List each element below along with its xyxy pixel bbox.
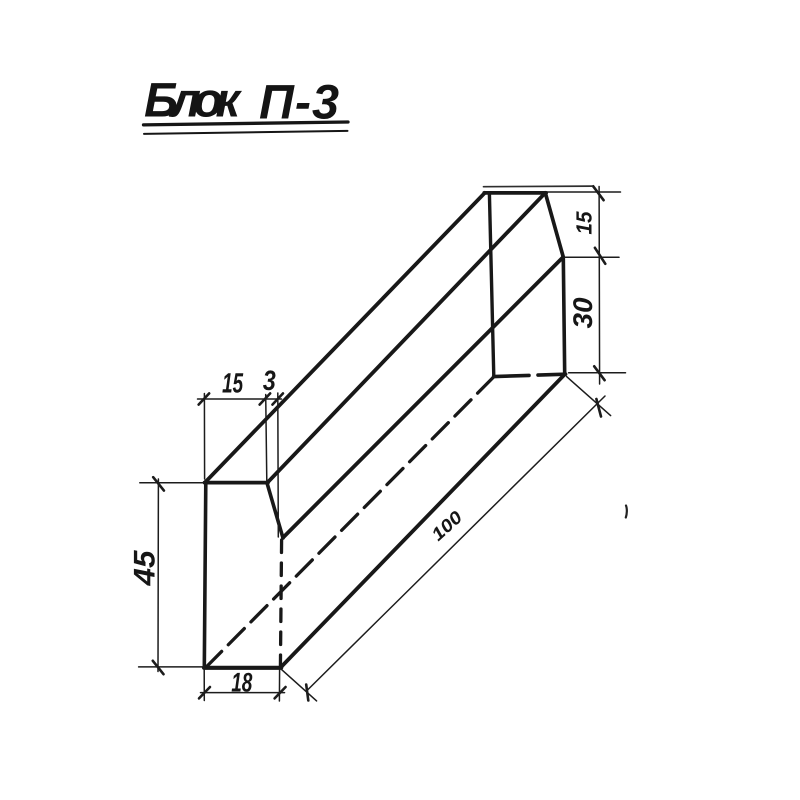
- dim line 45: [157, 479, 159, 672]
- ext line right of D' (30): [569, 372, 626, 374]
- small ink fleck: [626, 506, 627, 518]
- far right edge C'-D': [563, 257, 564, 374]
- far slant edge B'-C': [545, 193, 563, 257]
- tick 18 left: [199, 687, 210, 698]
- label 3 (top): [263, 370, 276, 390]
- tick right dim bottom: [594, 366, 604, 380]
- label 45 (left, rotated): [134, 550, 155, 586]
- dim line 15/3 (top): [198, 398, 282, 400]
- label 18 (bottom): [232, 673, 253, 692]
- tick right dim top: [593, 186, 603, 200]
- ext line 100 from D: [282, 670, 317, 701]
- near slant edge B-C: [267, 483, 283, 538]
- long edge from B: [268, 193, 546, 483]
- faint double-ruled line above far top edge: [484, 185, 593, 188]
- ext line below E: [203, 669, 205, 701]
- long edge from C: [283, 257, 563, 537]
- ext line 100 from D': [567, 377, 611, 416]
- near left edge A-E: [204, 482, 206, 669]
- ext line top of 45: [140, 482, 205, 484]
- tick 15/3 middle: [260, 393, 271, 404]
- near top edge A-B: [205, 481, 269, 485]
- ext line right of C' (15/30): [565, 256, 619, 258]
- tick 15/3 left: [199, 393, 210, 404]
- hidden long edge from E (dashed): [206, 377, 494, 668]
- ext line right of B' (15): [547, 191, 621, 193]
- tick 18 right: [275, 687, 286, 698]
- tick 45 top: [153, 477, 164, 490]
- ext line above A: [203, 394, 205, 480]
- long edge from D: [281, 375, 565, 668]
- dim line 100 (diagonal): [307, 396, 605, 691]
- ext line right of 3 (down through figure): [277, 393, 280, 537]
- tick 100 right: [596, 399, 601, 417]
- tick 45 bottom: [153, 661, 164, 674]
- near bottom edge E-D: [204, 666, 281, 670]
- label 100 (diagonal, rotated): [433, 511, 460, 541]
- label 15 (top): [222, 373, 243, 393]
- label 30 (right, rotated): [573, 298, 592, 329]
- far left edge A'-E': [489, 194, 493, 377]
- title "Блок П-3": [145, 83, 339, 119]
- tick right dim middle: [595, 248, 605, 264]
- tick 100 left: [306, 685, 308, 701]
- long edge from A: [206, 193, 485, 482]
- near right hidden edge C-D (dashed): [280, 540, 281, 668]
- far top edge A'-B': [484, 191, 546, 195]
- ext line bottom of 45: [139, 666, 204, 668]
- dim line 18 (bottom): [201, 692, 285, 694]
- label 15 (right, rotated): [576, 211, 591, 234]
- dim line 15/30 (right, vertical): [598, 187, 601, 385]
- ext line above B: [266, 395, 267, 482]
- far bottom edge E'-D' (two strokes with small gap): [494, 375, 529, 376]
- tick 3 right: [272, 393, 283, 404]
- ext line below D: [278, 669, 280, 701]
- title underline (double): [144, 122, 349, 125]
